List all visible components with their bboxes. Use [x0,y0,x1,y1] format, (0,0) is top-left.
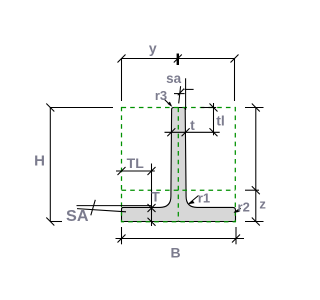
arrowhead r2 [233,209,239,213]
slope sa vertical reference line [185,78,187,110]
dimension tl top tick [210,104,218,112]
slope sa right dash [185,88,194,90]
bounding box dashed rectangle [122,108,236,222]
dimension tl line [213,103,215,135]
dimension z bottom extension [245,221,264,223]
dimension B left tick [118,235,126,243]
dimension z top extension [245,107,264,109]
dimension z top tick [252,104,260,112]
dimension TL right tick [148,167,156,175]
dimension H line [49,108,51,222]
svg-text:B: B [170,245,180,261]
slope sa tick [178,89,184,96]
dimension H bottom tick [46,218,54,226]
dimension B line [116,238,245,240]
leader r1 [189,196,199,204]
arrowhead r3 [168,102,173,107]
dimension y centroid tick slash [174,55,182,63]
svg-text:y: y [149,40,157,56]
dimension tl bottom tick [210,128,218,136]
dimension T bottom tick [148,218,156,226]
dimension B right tick [232,235,240,243]
dimension t left tick [167,128,175,136]
dimension tl top extension [201,107,216,109]
T-profile body [122,108,236,222]
dimension B left extension [121,227,123,244]
dimension B right extension [235,227,237,244]
slope SA sloped surface line [77,209,126,212]
arrowhead r1 [188,201,194,205]
dimension H bottom extension [50,221,62,223]
svg-text:H: H [34,153,45,170]
leader r3 [164,99,171,106]
svg-text:T: T [151,189,160,205]
svg-text:tl: tl [216,113,225,129]
svg-text:t: t [190,117,195,133]
slope sa left dash [174,93,185,95]
dimension t line [165,131,220,133]
dimension t right tick [182,128,190,136]
svg-text:r2: r2 [238,199,250,214]
svg-text:sa: sa [166,70,181,86]
dimension y right extension [234,59,236,102]
dimension y line [122,58,235,60]
dimension T vertical line [151,164,153,227]
svg-text:TL: TL [127,155,145,171]
dimension z line [255,108,257,222]
slope sa slanted stem edge line [179,86,181,103]
svg-text:r3: r3 [155,88,167,103]
dimension TL line [116,170,155,172]
dimension TL left tick [118,167,126,175]
svg-text:r1: r1 [198,190,210,205]
leader r2 [234,208,241,212]
horizontal centroid centerline [122,189,236,191]
dimension y left extension [121,59,123,102]
dimension z centroid stub [245,189,259,191]
svg-text:z: z [259,197,266,212]
dimension y centroid bold bar [177,54,179,66]
dimension T top tick cross [148,204,156,212]
dimension z centroid tick [252,186,260,194]
vertical centroid centerline [177,108,179,222]
dimension y right tick [231,55,239,63]
dimension H top tick [46,104,54,112]
dimension T top tick [148,204,156,212]
slope SA tick [91,200,96,216]
svg-text:SA: SA [66,208,89,225]
dimension z bottom tick [252,218,260,226]
dimension H top extension [50,107,113,109]
slope SA horizontal reference line [77,205,152,207]
dimension y left tick [118,55,126,63]
